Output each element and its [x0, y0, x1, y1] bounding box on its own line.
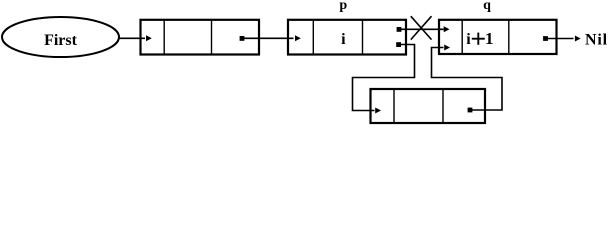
svg-text:i: i [466, 31, 471, 48]
arrowhead Nil [575, 36, 581, 42]
arrowhead into new node [375, 108, 381, 114]
node1 divider 1 [163, 20, 165, 55]
wire p to new node [353, 45, 415, 111]
ellipse First [2, 17, 119, 57]
svg-text:p: p [339, 0, 347, 13]
pointer dot q [543, 36, 548, 41]
node1 box [141, 20, 260, 55]
wire q to Nil [546, 38, 574, 40]
svg-text:First: First [44, 32, 78, 49]
wire p to q (old pointer) [399, 28, 444, 30]
new node box [371, 89, 486, 123]
arrowhead into q upper [444, 26, 450, 32]
node1 pointer dot [240, 36, 245, 41]
node q divider 1 [461, 20, 463, 54]
svg-text:i: i [341, 31, 346, 48]
node1 divider 2 [211, 20, 213, 55]
node q box [439, 20, 557, 54]
node p divider 1 [312, 20, 314, 55]
pointer dot p lower [396, 42, 401, 47]
node p divider 2 [362, 20, 364, 55]
pointer dot p upper [397, 27, 402, 32]
node q divider 2 [508, 20, 510, 54]
new node divider 2 [442, 89, 444, 123]
wire node1 to node p [242, 37, 294, 39]
svg-text:1: 1 [485, 29, 494, 48]
new node divider 1 [393, 89, 395, 123]
node p box [288, 20, 406, 55]
arrowhead into q lower [444, 45, 450, 51]
X cross-out mark [411, 16, 432, 39]
svg-text:Nil: Nil [585, 32, 608, 49]
pointer dot new node [468, 108, 473, 113]
svg-text:q: q [483, 0, 491, 13]
wire new node to q [432, 48, 503, 111]
arrowhead into node p [295, 35, 301, 41]
arrowhead into node1 [146, 35, 152, 41]
wire First to node1 [119, 37, 146, 39]
